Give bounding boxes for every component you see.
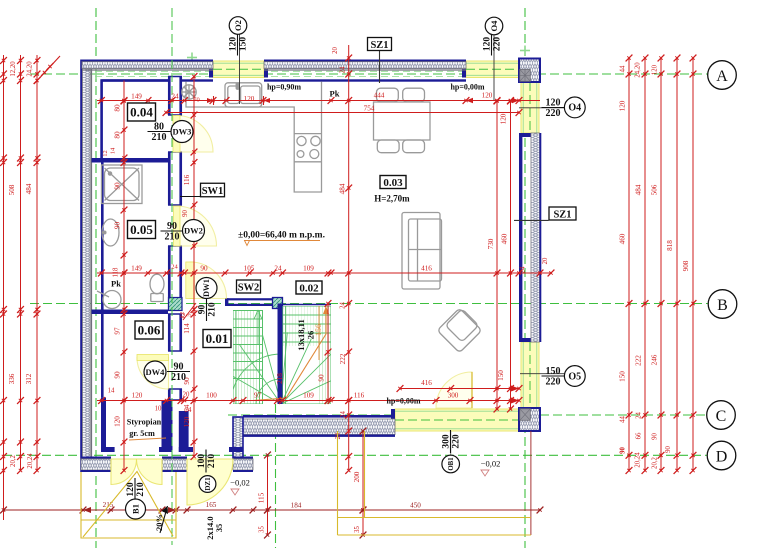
svg-text:484: 484 xyxy=(25,183,33,194)
svg-text:115: 115 xyxy=(258,492,266,503)
svg-text:149: 149 xyxy=(131,265,142,273)
svg-text:120: 120 xyxy=(652,64,659,75)
svg-text:20,2: 20,2 xyxy=(652,456,659,468)
svg-text:35: 35 xyxy=(214,524,224,533)
svg-text:24: 24 xyxy=(340,66,347,73)
svg-text:24: 24 xyxy=(520,266,527,273)
svg-text:220: 220 xyxy=(546,108,561,119)
svg-text:90: 90 xyxy=(114,371,122,379)
svg-text:484: 484 xyxy=(635,184,643,195)
svg-text:149: 149 xyxy=(131,93,142,101)
svg-text:20: 20 xyxy=(542,257,549,264)
svg-text:90: 90 xyxy=(200,265,208,273)
svg-text:hp=0,90m: hp=0,90m xyxy=(267,83,301,92)
svg-text:222: 222 xyxy=(635,355,643,366)
svg-text:754: 754 xyxy=(364,105,375,113)
svg-text:109: 109 xyxy=(303,392,314,400)
svg-text:116: 116 xyxy=(183,174,191,185)
svg-text:90: 90 xyxy=(620,447,627,454)
svg-text:OB1: OB1 xyxy=(448,457,455,471)
svg-text:908: 908 xyxy=(682,260,690,271)
svg-text:210: 210 xyxy=(171,372,186,383)
svg-text:35: 35 xyxy=(259,526,266,533)
svg-text:24: 24 xyxy=(636,412,643,419)
svg-text:200: 200 xyxy=(353,471,361,482)
svg-text:−0,02: −0,02 xyxy=(481,459,501,469)
svg-text:730: 730 xyxy=(487,238,495,249)
svg-text:120: 120 xyxy=(114,416,122,427)
svg-text:460: 460 xyxy=(619,233,627,244)
svg-text:10: 10 xyxy=(155,406,162,413)
svg-text:120: 120 xyxy=(482,92,493,100)
svg-text:70: 70 xyxy=(193,97,200,104)
svg-text:DZ1: DZ1 xyxy=(204,477,212,491)
svg-text:246: 246 xyxy=(651,354,659,365)
svg-text:90: 90 xyxy=(114,182,122,190)
svg-text:hp=0,00m: hp=0,00m xyxy=(386,397,420,406)
svg-text:118: 118 xyxy=(113,267,120,278)
svg-text:444: 444 xyxy=(374,92,385,100)
svg-text:97: 97 xyxy=(114,327,122,335)
svg-text:−0,02: −0,02 xyxy=(230,478,250,488)
svg-text:20,24: 20,24 xyxy=(635,452,642,468)
svg-text:220: 220 xyxy=(546,377,561,388)
svg-text:0.05: 0.05 xyxy=(130,222,153,237)
svg-text:20: 20 xyxy=(183,392,190,399)
svg-text:97: 97 xyxy=(254,392,262,400)
svg-text:24: 24 xyxy=(185,407,192,414)
svg-text:Pk: Pk xyxy=(111,279,121,289)
svg-text:105: 105 xyxy=(244,265,255,273)
svg-text:5: 5 xyxy=(186,313,193,316)
svg-text:14: 14 xyxy=(108,388,115,395)
svg-text:484: 484 xyxy=(339,183,347,194)
svg-text:B1: B1 xyxy=(130,504,140,514)
svg-text:90: 90 xyxy=(182,210,189,217)
svg-text:O2: O2 xyxy=(233,20,243,31)
svg-text:460: 460 xyxy=(501,233,509,244)
svg-text:100: 100 xyxy=(206,392,217,400)
svg-text:24,20: 24,20 xyxy=(635,62,642,78)
svg-text:D: D xyxy=(716,448,728,465)
svg-text:165: 165 xyxy=(206,501,217,509)
svg-text:0.06: 0.06 xyxy=(138,323,161,338)
svg-text:150: 150 xyxy=(619,371,627,382)
svg-text:A: A xyxy=(716,68,728,85)
svg-text:0.04: 0.04 xyxy=(130,105,153,120)
svg-text:14: 14 xyxy=(110,147,117,154)
svg-text:818: 818 xyxy=(666,240,674,251)
svg-text:44: 44 xyxy=(620,65,627,72)
svg-text:80: 80 xyxy=(114,104,122,112)
svg-text:90: 90 xyxy=(318,374,326,382)
svg-text:20,2: 20,2 xyxy=(10,454,17,466)
svg-text:210: 210 xyxy=(136,482,146,497)
svg-text:66: 66 xyxy=(636,432,643,439)
svg-text:20,24: 20,24 xyxy=(27,453,34,469)
svg-text:90: 90 xyxy=(665,446,672,453)
svg-text:O4: O4 xyxy=(568,103,581,114)
svg-text:90: 90 xyxy=(174,362,184,373)
svg-text:DW4: DW4 xyxy=(146,367,166,377)
svg-text:24: 24 xyxy=(340,411,347,418)
svg-text:24: 24 xyxy=(171,93,179,101)
svg-text:O5: O5 xyxy=(568,371,581,382)
svg-text:300: 300 xyxy=(448,392,459,400)
svg-text:0.02: 0.02 xyxy=(299,282,319,294)
svg-text:156: 156 xyxy=(314,324,323,336)
svg-text:DW3: DW3 xyxy=(173,126,192,136)
svg-text:SW2: SW2 xyxy=(238,282,260,293)
svg-text:150: 150 xyxy=(497,370,505,381)
svg-text:116: 116 xyxy=(354,392,365,400)
svg-text:80: 80 xyxy=(154,122,164,133)
svg-text:DW2: DW2 xyxy=(184,225,203,235)
svg-text:336: 336 xyxy=(8,373,16,384)
svg-text:90: 90 xyxy=(652,433,659,440)
svg-text:120: 120 xyxy=(132,392,143,400)
svg-text:Styropian: Styropian xyxy=(127,418,162,427)
svg-text:35: 35 xyxy=(354,526,361,533)
svg-text:506: 506 xyxy=(651,184,659,195)
svg-text:210: 210 xyxy=(208,302,218,317)
svg-text:218: 218 xyxy=(276,373,284,384)
svg-text:120: 120 xyxy=(183,416,191,427)
svg-text:0.03: 0.03 xyxy=(383,177,403,189)
svg-text:210: 210 xyxy=(207,454,217,469)
svg-text:416: 416 xyxy=(421,265,432,273)
svg-text:B: B xyxy=(717,297,728,314)
svg-text:24: 24 xyxy=(340,302,347,309)
svg-text:20: 20 xyxy=(335,432,342,439)
svg-text:SZ1: SZ1 xyxy=(370,40,388,51)
svg-text:184: 184 xyxy=(291,502,302,510)
svg-text:Pk: Pk xyxy=(330,89,340,99)
svg-text:H=2,70m: H=2,70m xyxy=(374,194,410,204)
svg-text:120: 120 xyxy=(244,95,255,103)
svg-text:±0,00=66,40 m n.p.m.: ±0,00=66,40 m n.p.m. xyxy=(238,231,325,241)
svg-text:210: 210 xyxy=(152,132,167,143)
svg-text:20: 20 xyxy=(332,47,339,54)
svg-text:44: 44 xyxy=(620,416,627,423)
svg-text:150: 150 xyxy=(239,37,249,52)
svg-text:C: C xyxy=(716,408,727,425)
svg-text:450: 450 xyxy=(410,502,421,510)
svg-text:24,20: 24,20 xyxy=(27,61,34,77)
svg-text:80: 80 xyxy=(114,131,122,139)
svg-text:150: 150 xyxy=(546,366,561,377)
svg-text:210: 210 xyxy=(165,232,180,243)
svg-text:109: 109 xyxy=(303,265,314,273)
svg-text:312: 312 xyxy=(25,373,33,384)
svg-text:120: 120 xyxy=(546,98,561,109)
svg-text:222: 222 xyxy=(339,353,347,364)
svg-text:0.01: 0.01 xyxy=(206,331,229,346)
svg-text:12: 12 xyxy=(102,150,109,157)
svg-text:12,20: 12,20 xyxy=(10,61,17,77)
svg-text:24: 24 xyxy=(171,264,178,271)
svg-text:90: 90 xyxy=(167,221,177,232)
svg-text:O4: O4 xyxy=(489,20,499,32)
svg-text:hp=0,00m: hp=0,00m xyxy=(450,83,484,92)
svg-text:gr. 5cm: gr. 5cm xyxy=(129,429,155,438)
svg-text:DW1: DW1 xyxy=(202,279,211,297)
svg-text:SW1: SW1 xyxy=(202,186,224,197)
svg-text:SZ1: SZ1 xyxy=(553,209,571,220)
svg-text:114: 114 xyxy=(183,323,191,334)
svg-text:90: 90 xyxy=(114,222,122,230)
svg-text:24: 24 xyxy=(274,265,282,273)
svg-text:120: 120 xyxy=(619,100,627,111)
svg-text:416: 416 xyxy=(421,379,432,387)
svg-text:13x18,11: 13x18,11 xyxy=(296,319,306,350)
svg-text:20%: 20% xyxy=(154,514,164,531)
svg-text:508: 508 xyxy=(8,184,16,195)
svg-text:120: 120 xyxy=(500,113,508,124)
svg-text:220: 220 xyxy=(493,37,503,52)
svg-text:220: 220 xyxy=(452,434,462,449)
